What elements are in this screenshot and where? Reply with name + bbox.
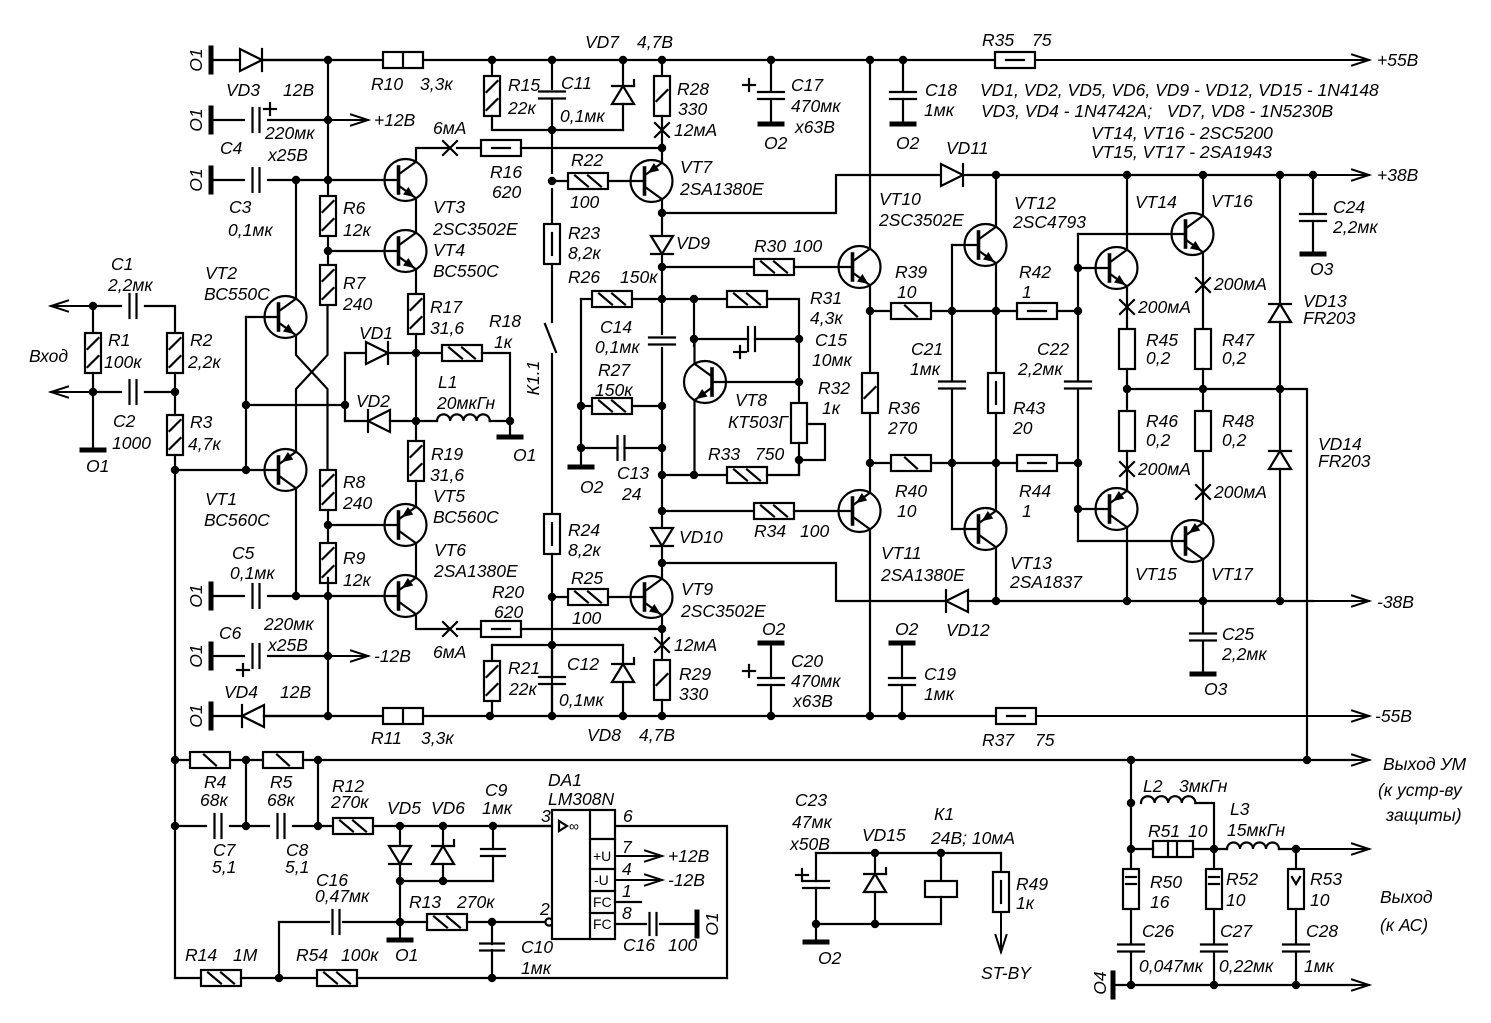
svg-text:С25: С25	[1222, 624, 1254, 644]
svg-text:С15: С15	[815, 330, 847, 350]
wire VT5 base row	[328, 524, 399, 526]
wire to O2 gnd	[580, 448, 582, 467]
wire VD1 left rail	[344, 353, 346, 421]
transistor VT4	[385, 230, 427, 272]
svg-text:5,1: 5,1	[212, 857, 236, 877]
svg-text:VD11: VD11	[946, 138, 988, 158]
wire VT15 collector	[1126, 527, 1128, 601]
svg-text:2,2мк: 2,2мк	[107, 275, 153, 295]
svg-text:5,1: 5,1	[285, 857, 309, 877]
wire R26 right	[632, 298, 662, 300]
wire VT8 emitter	[693, 400, 695, 475]
transistor VT14	[1096, 247, 1138, 289]
wire L3 right	[1279, 848, 1296, 850]
svg-text:-12В: -12В	[374, 646, 411, 666]
svg-text:R52: R52	[1226, 869, 1258, 889]
svg-text:R32: R32	[818, 378, 850, 398]
wire C13 right	[625, 447, 663, 449]
wire pin1 stub	[615, 901, 641, 903]
svg-text:(к устр-ву: (к устр-ву	[1378, 780, 1463, 800]
node C15 left	[690, 335, 698, 343]
wire L1 gnd	[509, 421, 511, 437]
svg-text:VT16: VT16	[1211, 191, 1253, 211]
capacitor C18	[890, 92, 916, 99]
svg-text:1: 1	[622, 881, 632, 901]
capacitor C24	[1300, 214, 1326, 221]
node VT5 base	[324, 521, 332, 529]
svg-text:750: 750	[755, 444, 784, 464]
node -55 R21	[486, 712, 494, 720]
wire VT13 collector	[995, 547, 997, 601]
wire R32 col top	[798, 339, 800, 403]
terminal O1 VD4	[209, 704, 214, 728]
wire C9 stub	[492, 826, 494, 849]
wire VT1 collector down	[295, 488, 297, 596]
node +12 x328	[324, 116, 332, 124]
wire VT14 emitter	[1126, 286, 1128, 329]
resistor R15	[484, 76, 500, 116]
wire R1 gnd	[92, 392, 94, 450]
wire C9 bottom stub	[492, 856, 494, 881]
resistor R51	[1153, 841, 1193, 857]
wire R18 left	[416, 352, 442, 354]
wire VT14 base	[1078, 267, 1110, 269]
svg-text:4,3к: 4,3к	[810, 308, 843, 328]
svg-text:1мк: 1мк	[910, 359, 941, 379]
svg-text:VT15: VT15	[1135, 564, 1177, 584]
transistor VT5	[385, 504, 427, 546]
node C13 left	[577, 444, 585, 452]
svg-text:0,1мк: 0,1мк	[595, 337, 640, 357]
svg-text:100к: 100к	[341, 945, 379, 965]
svg-text:2SA1380Е: 2SA1380Е	[880, 565, 965, 585]
svg-text:270: 270	[887, 418, 917, 438]
wire C21 col bottom	[951, 389, 953, 529]
wire R31 loop left col	[693, 299, 695, 346]
svg-text:10: 10	[1310, 890, 1330, 910]
wire R27 right	[632, 405, 662, 407]
node top rail x328	[324, 56, 332, 64]
svg-text:О1: О1	[513, 445, 536, 465]
wire R39 left	[870, 310, 891, 312]
svg-text:75: 75	[1032, 30, 1052, 50]
terminal O1 C6	[209, 644, 214, 668]
svg-text:VT9: VT9	[681, 579, 713, 599]
diode VD2	[368, 410, 390, 432]
svg-text:R10: R10	[371, 74, 403, 94]
node bus R34	[658, 507, 666, 515]
svg-text:200мА: 200мА	[1137, 297, 1191, 317]
node VD5 top	[396, 822, 404, 830]
wire VD6 top stub	[442, 826, 444, 846]
node input1-R1	[89, 302, 97, 310]
svg-text:75: 75	[1035, 730, 1055, 750]
node R27 left	[577, 402, 585, 410]
svg-text:8: 8	[622, 903, 632, 923]
svg-text:С20: С20	[791, 651, 823, 671]
svg-text:100: 100	[793, 236, 822, 256]
wire R27 left	[581, 405, 592, 407]
node C15 right	[795, 335, 803, 343]
svg-text:0,1мк: 0,1мк	[560, 106, 605, 126]
node +38 VD11	[992, 171, 1000, 179]
svg-text:О1: О1	[702, 912, 722, 935]
resistor R27	[592, 398, 632, 414]
capacitor C3	[253, 168, 260, 192]
wire R8-R9	[327, 510, 329, 543]
wire R44 left	[996, 462, 1017, 464]
node out line L2	[1127, 756, 1135, 764]
wire bus below C14	[661, 348, 663, 528]
wire C24 bottom	[1312, 221, 1314, 254]
svg-text:R29: R29	[679, 664, 711, 684]
node R39 left	[866, 307, 874, 315]
wire VD4 to bus	[264, 715, 328, 717]
wire R36 bottom	[869, 413, 871, 463]
wire C16a right	[343, 921, 400, 923]
node K1 top	[937, 849, 945, 857]
node VT8 base right	[795, 378, 803, 386]
wire R16 to node	[521, 147, 662, 149]
svg-text:2,2мк: 2,2мк	[1221, 644, 1267, 664]
wire VT16 base run	[1078, 233, 1186, 235]
wire R42 right	[1057, 310, 1078, 312]
svg-text:VT7: VT7	[680, 157, 713, 177]
svg-text:С1: С1	[111, 254, 133, 274]
svg-text:330: 330	[679, 684, 708, 704]
wire R21 bottom	[491, 701, 493, 716]
wire C16a left	[279, 921, 329, 923]
resistor R50	[1123, 869, 1139, 909]
svg-text:R18: R18	[489, 311, 521, 331]
svg-text:10: 10	[1188, 821, 1208, 841]
wire R14 left	[175, 977, 201, 979]
wire -38 rail	[996, 600, 1313, 602]
svg-text:С16: С16	[623, 935, 655, 955]
xmark 200mA VT15	[1120, 462, 1134, 476]
wire VD2 row left	[345, 420, 366, 422]
wire VD5 col down	[399, 881, 401, 940]
wire input row1	[93, 305, 121, 307]
wire R3 top	[174, 392, 176, 415]
svg-text:VD7: VD7	[585, 32, 620, 52]
resistor R31	[727, 291, 767, 307]
node -12 x328	[324, 652, 332, 660]
node R51 left	[1127, 845, 1135, 853]
svg-text:470мк: 470мк	[791, 671, 841, 691]
capacitor C22	[1065, 382, 1091, 389]
svg-text:2SC3502Е: 2SC3502Е	[680, 601, 766, 621]
node rail-R4	[171, 756, 179, 764]
resistor R20	[481, 621, 521, 637]
node -38 VT13	[992, 597, 1000, 605]
wire R1 bottom	[92, 373, 94, 392]
wire R43 top	[995, 311, 997, 373]
wire VT7 emitter	[661, 148, 663, 163]
zener VD15	[864, 868, 886, 892]
node R44 right	[1074, 459, 1082, 467]
wire VT1 base row	[175, 469, 279, 471]
resistor R21	[484, 661, 500, 701]
wire R19 to VT5	[415, 481, 417, 507]
wire C28 bottom	[1295, 952, 1297, 985]
svg-text:Вход: Вход	[29, 346, 68, 366]
terminal O1 C5	[209, 584, 214, 608]
svg-text:200мА: 200мА	[1213, 482, 1267, 502]
capacitor C14	[649, 338, 675, 345]
svg-text:С3: С3	[229, 197, 252, 217]
wire C27 bottom	[1213, 952, 1215, 985]
svg-text:О2: О2	[762, 619, 786, 639]
svg-text:R19: R19	[431, 444, 463, 464]
resistor R25	[568, 589, 608, 605]
diode VD14	[1269, 451, 1291, 469]
wire R2 bottom	[174, 373, 176, 392]
svg-text:С21: С21	[911, 339, 943, 359]
wire K1 top row	[816, 852, 1001, 854]
wire C17 bottom	[770, 99, 772, 124]
wire VT11 emitter	[869, 463, 871, 493]
node VT4 base	[324, 247, 332, 255]
wire +38 rail	[996, 174, 1313, 176]
wire L2 right	[1195, 803, 1214, 849]
node VT15 base	[1074, 505, 1082, 513]
wire VD8 bottom	[622, 682, 624, 716]
svg-text:2SC3502Е: 2SC3502Е	[878, 210, 964, 230]
wire R42 left	[996, 310, 1017, 312]
svg-text:С14: С14	[600, 317, 632, 337]
svg-text:7: 7	[622, 837, 633, 857]
wire bus below VD9	[661, 254, 663, 334]
node C3 x328	[324, 176, 332, 184]
svg-text:VD10: VD10	[679, 527, 723, 547]
wire R15 top	[491, 60, 493, 76]
capacitor C17	[758, 92, 784, 99]
resistor R26	[592, 291, 632, 307]
wire C23 gnd	[815, 924, 817, 942]
op-amp DA1 box	[552, 810, 615, 939]
node R13 left	[396, 918, 404, 926]
wire R36 top	[869, 311, 871, 373]
svg-text:FC: FC	[593, 916, 612, 932]
node C5-VT1coll	[292, 592, 300, 600]
relay coil K1	[925, 881, 957, 897]
svg-text:100: 100	[668, 935, 697, 955]
capacitor C10	[480, 944, 504, 951]
svg-text:О2: О2	[580, 477, 604, 497]
wire feedback bottom	[357, 977, 727, 979]
svg-text:1к: 1к	[494, 332, 513, 352]
svg-text:FR203: FR203	[1318, 451, 1371, 471]
wire R45 bottom	[1126, 369, 1128, 389]
arrow Vyhod UM	[1340, 755, 1369, 766]
wire Vyhod UM line	[175, 759, 1355, 761]
resistor R49	[993, 872, 1009, 912]
wire R39 right	[931, 310, 996, 312]
node VT2VT1 base col top	[242, 466, 250, 474]
svg-text:Выход: Выход	[1380, 887, 1433, 907]
node C3-VT2coll	[292, 176, 300, 184]
capacitor C2	[130, 380, 137, 404]
wire R46 top	[1126, 389, 1128, 411]
svg-text:R22: R22	[571, 150, 603, 170]
svg-text:330: 330	[678, 99, 707, 119]
node C9 top	[489, 822, 497, 830]
svg-text:R33: R33	[708, 444, 740, 464]
svg-text:1мк: 1мк	[1304, 956, 1335, 976]
wire VT7 to VD11	[662, 175, 941, 213]
node R13-C10	[488, 918, 496, 926]
wire VD3 to bus	[264, 59, 328, 61]
transistor VT1	[265, 449, 307, 491]
capacitor C23	[803, 881, 829, 888]
node VD6 bottom	[439, 877, 447, 885]
svg-text:С12: С12	[567, 654, 599, 674]
wire C13 left	[581, 447, 618, 449]
svg-text:L2: L2	[1143, 776, 1163, 796]
wire VD5 top stub	[399, 826, 401, 846]
node rail-C7	[171, 822, 179, 830]
wire 6mA-R20	[457, 628, 481, 630]
svg-text:R43: R43	[1013, 398, 1045, 418]
node R44 left	[992, 459, 1000, 467]
node bottomrail x328	[324, 712, 332, 720]
svg-text:0,1мк: 0,1мк	[559, 690, 604, 710]
capacitor C19	[889, 678, 915, 685]
node input2-R1	[89, 388, 97, 396]
svg-text:R40: R40	[895, 481, 927, 501]
op-amp symbol	[559, 818, 579, 834]
wire VT6 to R20 row	[416, 614, 449, 629]
resistor R17	[408, 294, 424, 334]
svg-text:L1: L1	[438, 372, 457, 392]
svg-text:20: 20	[1012, 418, 1033, 438]
wire C7 row	[175, 825, 206, 827]
node -38 VD14	[1276, 597, 1284, 605]
node mid R45	[1123, 385, 1131, 393]
node R32 bottom	[795, 456, 803, 464]
resistor R13	[427, 914, 467, 930]
svg-text:R9: R9	[343, 548, 366, 568]
wire C1 to R2 column	[145, 306, 175, 333]
wire C12 bottom	[551, 684, 553, 716]
wire mid row to VD rail	[246, 404, 345, 406]
wire VT16 collector	[1202, 175, 1204, 216]
svg-text:15мкГн: 15мкГн	[1227, 820, 1285, 840]
svg-text:0,047мк: 0,047мк	[1139, 956, 1204, 976]
wire R52 col top	[1213, 849, 1215, 869]
svg-text:0,2: 0,2	[1146, 348, 1171, 368]
wire C23 top	[815, 853, 817, 881]
svg-text:R1: R1	[108, 330, 130, 350]
transistor VT13	[965, 508, 1007, 550]
node bus R33	[658, 471, 666, 479]
node R40-C21	[948, 459, 956, 467]
svg-text:R51: R51	[1148, 821, 1180, 841]
node C7-C8	[242, 822, 250, 830]
terminal O1 top	[209, 48, 214, 72]
svg-text:О2: О2	[895, 619, 919, 639]
wire top rail	[264, 59, 995, 61]
transistor VT2	[265, 296, 307, 338]
wire VD4 row left	[211, 715, 240, 717]
transistor VT9	[631, 576, 673, 618]
wire R46 bottom	[1126, 451, 1128, 491]
capacitor C16 0.47	[333, 910, 340, 934]
capacitor C12	[539, 677, 565, 684]
arrow +38V rail	[1313, 170, 1369, 181]
capacitor C13	[618, 436, 625, 460]
wire VT13 base	[952, 528, 979, 530]
arrow -12V pin4	[615, 875, 662, 886]
svg-text:VD6: VD6	[431, 798, 465, 818]
svg-text:О1: О1	[186, 584, 206, 607]
wire VD1 row left	[345, 352, 366, 354]
wire VT4 base row	[328, 250, 399, 252]
wire VT8 collector	[693, 339, 695, 364]
wire C20 top	[770, 643, 772, 678]
resistor R32	[791, 403, 807, 443]
svg-text:С27: С27	[1220, 921, 1253, 941]
svg-text:6: 6	[623, 806, 633, 826]
svg-text:R6: R6	[343, 198, 366, 218]
svg-text:1000: 1000	[112, 433, 151, 453]
svg-text:VT15, VT17 - 2SА1943: VT15, VT17 - 2SА1943	[1091, 142, 1272, 162]
svg-text:3мкГн: 3мкГн	[1179, 776, 1228, 796]
wire 6mA to R16	[457, 147, 481, 149]
svg-text:VD5: VD5	[387, 798, 421, 818]
svg-text:FC: FC	[593, 894, 612, 910]
wire VT9 emitter	[661, 615, 663, 629]
svg-text:С4: С4	[220, 138, 243, 158]
resistor R48	[1195, 411, 1211, 451]
wire base col upper	[1077, 234, 1079, 311]
svg-text:200мА: 200мА	[1213, 274, 1267, 294]
wire bus below VD10	[661, 546, 663, 563]
node bus R26	[658, 295, 666, 303]
node -55 C19	[898, 712, 906, 720]
resistor R6	[320, 196, 336, 236]
wire R21 branch	[492, 644, 623, 646]
svg-text:х63В: х63В	[794, 117, 835, 137]
plus C15	[734, 346, 746, 358]
wire contact to R24	[551, 354, 553, 514]
node VD6 top	[439, 822, 447, 830]
svg-text:R49: R49	[1016, 874, 1048, 894]
svg-text:Выход УМ: Выход УМ	[1383, 754, 1467, 774]
arrow out bottom	[1340, 980, 1369, 991]
svg-text:0,47мк: 0,47мк	[315, 886, 370, 906]
wire C15 left	[694, 338, 748, 340]
wire R25 to VT9 base	[608, 596, 645, 598]
node C12 top junction	[548, 641, 556, 649]
wire C16b right	[660, 923, 697, 925]
svg-text:R21: R21	[508, 658, 540, 678]
wire VD8 top	[622, 645, 624, 664]
wire R3 bottom	[174, 455, 176, 470]
transistor VT16	[1172, 213, 1214, 255]
wire VD1 col mid	[415, 353, 417, 421]
wire R18 right	[482, 353, 510, 421]
svg-text:R34: R34	[754, 521, 786, 541]
node C16a bottom	[275, 974, 283, 982]
wire R22 left	[552, 180, 568, 182]
wire VD15 bottom stub	[874, 892, 876, 924]
wire C10 stub	[491, 922, 493, 944]
resistor R9	[320, 543, 336, 583]
node R31 left	[690, 295, 698, 303]
plus C6	[237, 664, 249, 676]
